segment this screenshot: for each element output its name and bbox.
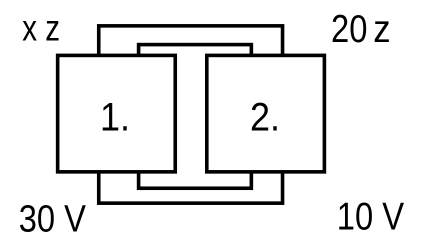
label 20 (of 20 z) [331,8,367,51]
wire inner loop [139,45,252,189]
label 30 V [19,197,87,240]
wire outer loop [99,26,283,203]
svg-text:30 V: 30 V [19,197,87,240]
svg-text:x z: x z [22,9,60,50]
coil box 2 [207,55,325,171]
label x z [22,9,60,50]
svg-text:10 V: 10 V [337,195,404,238]
svg-text:2.: 2. [250,96,280,140]
label 10 V [337,195,404,238]
svg-text:z: z [373,7,390,50]
svg-text:1.: 1. [100,96,130,140]
label z (of 20 z) [373,7,390,50]
svg-text:20: 20 [331,8,367,51]
coil box 1 [58,55,176,171]
label 1. [100,96,130,140]
label 2. [250,96,280,140]
